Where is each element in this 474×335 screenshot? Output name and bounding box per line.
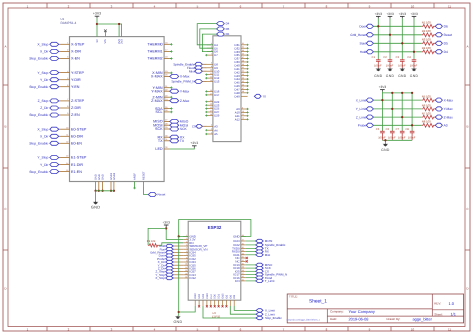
- svg-text:A: A: [4, 45, 6, 49]
- svg-text:10: 10: [210, 69, 212, 72]
- svg-text:X_Dir: X_Dir: [40, 50, 49, 54]
- pin IO35 U3: [183, 255, 188, 257]
- pin Y-STEP U1: [64, 72, 70, 74]
- svg-text:CLK: CLK: [210, 294, 213, 299]
- svg-text:10: 10: [411, 4, 415, 8]
- pin D6 U2: [207, 51, 213, 53]
- svg-text:Z-Max: Z-Max: [180, 99, 190, 103]
- svg-text:29: 29: [165, 126, 167, 129]
- pin SD3 U3 bottom: [202, 300, 204, 306]
- svg-text:C5: C5: [376, 128, 380, 131]
- pin IO27 U3: [183, 271, 188, 273]
- svg-text:25: 25: [210, 106, 212, 109]
- pin D7 U2: [207, 54, 213, 56]
- svg-text:C7: C7: [396, 128, 400, 131]
- svg-text:D29: D29: [214, 114, 220, 118]
- pin CMD U3 bottom: [206, 300, 208, 306]
- svg-text:+3V3: +3V3: [379, 85, 387, 89]
- svg-text:Y_Dir: Y_Dir: [40, 78, 49, 82]
- pin D47 U2: [241, 88, 247, 90]
- svg-text:31: 31: [165, 138, 167, 141]
- no-connect bottom pin: [206, 305, 208, 307]
- pin SDA U1: [164, 108, 170, 110]
- capacitor C1: [377, 58, 379, 61]
- svg-text:Step_Enable: Step_Enable: [29, 113, 48, 117]
- net label MISO: [170, 119, 179, 123]
- ground U3: [177, 315, 179, 318]
- svg-text:5: 5: [186, 247, 187, 250]
- svg-text:4: 4: [211, 128, 212, 131]
- net label X_Limit bottom: [256, 309, 263, 312]
- svg-text:+3V3: +3V3: [190, 141, 198, 145]
- svg-text:5: 5: [211, 131, 212, 134]
- no-connect NC: [246, 257, 248, 259]
- net label Y-Max: [435, 107, 442, 111]
- svg-text:X-DIR: X-DIR: [71, 50, 81, 54]
- svg-text:X_Dir: X_Dir: [40, 135, 49, 139]
- svg-text:9: 9: [186, 260, 187, 263]
- pin IO21 U3 right: [241, 254, 246, 256]
- junction GND U3: [178, 235, 180, 237]
- pin D37 U2: [241, 58, 247, 60]
- wire +3V3 to U1 5V pin: [96, 18, 98, 36]
- ground C1: [377, 67, 379, 70]
- capacitor C7: [401, 130, 403, 133]
- resistor R7 100: [422, 115, 435, 119]
- svg-text:R3 100: R3 100: [422, 38, 431, 42]
- svg-text:D13: D13: [214, 80, 220, 84]
- wire row7: [374, 116, 422, 118]
- svg-text:100nF: 100nF: [386, 64, 394, 67]
- net label Spindle_Enable: [195, 62, 203, 66]
- pin E0-EN U1: [64, 142, 70, 144]
- net label RX: [170, 135, 179, 139]
- svg-text:X_Step: X_Step: [37, 43, 48, 47]
- wire row8: [374, 124, 422, 126]
- net label Step_Enable: [59, 171, 64, 173]
- pin MOSI U1: [164, 124, 170, 126]
- pin IO14 U3: [183, 274, 188, 276]
- stub D29: [205, 114, 207, 116]
- net label Z-Max: [170, 99, 179, 103]
- svg-text:C8: C8: [405, 128, 409, 131]
- net label SCK U3: [246, 267, 256, 269]
- net label Step_Enable: [59, 57, 64, 59]
- svg-text:32: 32: [242, 256, 244, 259]
- svg-text:Y-Max: Y-Max: [180, 89, 190, 93]
- pin D16 U2: [207, 90, 213, 92]
- pin SENSOR_VN U3: [183, 248, 188, 250]
- wire to X_Limit: [234, 306, 256, 310]
- svg-text:C2: C2: [383, 56, 387, 59]
- net label D5 top: [217, 27, 225, 31]
- svg-text:GND: GND: [98, 174, 101, 180]
- net label X_Dir: [59, 135, 64, 137]
- svg-text:11: 11: [210, 72, 212, 75]
- svg-text:A: A: [466, 45, 468, 49]
- svg-text:Z-STEP: Z-STEP: [71, 99, 85, 103]
- pin CLK U3 bottom: [210, 300, 212, 306]
- stub D22: [205, 101, 207, 103]
- svg-text:REV:: REV:: [434, 302, 441, 306]
- svg-text:47: 47: [242, 87, 244, 90]
- svg-text:15: 15: [66, 169, 68, 172]
- svg-text:19: 19: [165, 70, 167, 73]
- no-connect bottom pin: [222, 305, 224, 307]
- pin D32 U2: [241, 47, 247, 49]
- pin D41 U2: [241, 68, 247, 70]
- junction row2: [389, 34, 391, 36]
- svg-text:+3V3: +3V3: [93, 12, 101, 16]
- pin D23 U2: [207, 104, 213, 106]
- chip U3 ESP32 body: [188, 221, 241, 300]
- svg-text:5: 5: [67, 77, 68, 80]
- junction row5: [381, 99, 383, 101]
- svg-text:THERM1: THERM1: [147, 50, 162, 54]
- svg-text:2: 2: [67, 49, 68, 52]
- pin IO12 U3: [183, 277, 188, 279]
- svg-text:Y-MAX: Y-MAX: [151, 89, 163, 93]
- resistor R5 100: [422, 98, 435, 102]
- svg-text:Hold: Hold: [360, 50, 367, 54]
- svg-text:11: 11: [448, 4, 451, 8]
- wire row6: [374, 108, 422, 110]
- svg-text:Y-EN: Y-EN: [71, 85, 80, 89]
- svg-text:GND: GND: [233, 235, 240, 239]
- svg-text:E0-DIR: E0-DIR: [71, 135, 83, 139]
- wire row5: [374, 99, 422, 101]
- svg-text:IO15: IO15: [222, 293, 225, 299]
- net label Z_Dir: [59, 107, 64, 109]
- svg-text:Y_Limit: Y_Limit: [356, 107, 367, 111]
- svg-text:E0-EN: E0-EN: [71, 142, 82, 146]
- svg-text:9: 9: [67, 112, 68, 115]
- pin THERM2 U1: [164, 58, 170, 60]
- svg-text:GND: GND: [398, 74, 407, 78]
- svg-text:12: 12: [185, 269, 187, 272]
- pin A11 U2: [241, 115, 247, 117]
- title block: [287, 294, 463, 323]
- svg-text:Z_Step: Z_Step: [38, 99, 49, 103]
- pin D27 U2: [207, 111, 213, 113]
- pin SCL U1: [164, 111, 170, 113]
- svg-text:Z_Dir: Z_Dir: [40, 106, 49, 110]
- wire row2: [374, 34, 422, 36]
- svg-text:Grbl_Reset: Grbl_Reset: [350, 33, 366, 37]
- svg-text:C4: C4: [407, 56, 411, 59]
- net label Y_Step U3: [173, 274, 183, 276]
- svg-text:B: B: [4, 125, 6, 129]
- svg-text:R7 100: R7 100: [422, 112, 431, 116]
- junction: [96, 23, 98, 25]
- pin A3 U2: [207, 125, 213, 127]
- svg-text:4: 4: [67, 70, 68, 73]
- svg-text:C3: C3: [396, 56, 400, 59]
- svg-text:14: 14: [185, 276, 187, 279]
- no-connect bottom pin: [214, 305, 216, 307]
- stub D25: [205, 108, 207, 110]
- net label X-Max: [435, 98, 442, 102]
- svg-text:25: 25: [165, 106, 167, 109]
- svg-text:23: 23: [165, 94, 167, 97]
- net label Spindle_PWM_N U3: [246, 274, 256, 276]
- net label Y_Dir U3: [173, 264, 183, 266]
- pin D35 U2: [241, 54, 247, 56]
- svg-text:D17: D17: [214, 93, 220, 97]
- net label Step_Enable: [59, 114, 64, 116]
- pin Y-EN U1: [64, 86, 70, 88]
- net label MOSI U3: [246, 240, 256, 242]
- svg-text:Z-MAX: Z-MAX: [151, 99, 163, 103]
- pin D12 U2: [207, 77, 213, 79]
- net label TX U3: [246, 247, 256, 249]
- svg-text:45: 45: [242, 80, 244, 83]
- pin IO32 U3: [183, 258, 188, 260]
- svg-text:IO12: IO12: [189, 276, 196, 280]
- net label Y_Dir: [59, 164, 64, 166]
- wire branch to 3V3 pins: [97, 24, 122, 37]
- net label Reset: [435, 33, 442, 37]
- svg-text:B: B: [466, 125, 468, 129]
- pin Y-MIN U1: [164, 87, 170, 89]
- svg-text:Y_Dir: Y_Dir: [40, 163, 49, 167]
- svg-text:Z-Max: Z-Max: [444, 115, 454, 119]
- pin D46 U2: [241, 85, 247, 87]
- svg-text:100nF: 100nF: [378, 137, 386, 140]
- svg-text:32: 32: [242, 46, 244, 49]
- pin E1-STEP U1: [64, 157, 70, 159]
- svg-text:A5: A5: [214, 132, 218, 136]
- pin D9 U2: [207, 67, 213, 69]
- net label X-Max: [170, 74, 179, 78]
- svg-text:16: 16: [210, 89, 212, 92]
- wire R9 to EN: [159, 243, 183, 246]
- svg-text:100nF: 100nF: [410, 64, 418, 67]
- pin X-EN U1: [64, 57, 70, 59]
- svg-text:Company:: Company:: [330, 310, 344, 314]
- stub D23: [205, 104, 207, 106]
- svg-text:LED: LED: [155, 147, 163, 151]
- resistor R1 100: [422, 24, 435, 28]
- stub A4: [205, 129, 207, 131]
- svg-text:CS: CS: [192, 124, 196, 128]
- pin D42 U2: [241, 71, 247, 73]
- pin D4 U2: [207, 44, 213, 46]
- net label RX U3: [246, 251, 256, 253]
- svg-text:Sheet:: Sheet:: [434, 312, 443, 316]
- svg-text:9: 9: [242, 106, 243, 109]
- pin A12 U2: [241, 118, 247, 120]
- pin IO16 U3 right: [241, 277, 246, 279]
- pin Z-STEP U1: [64, 100, 70, 102]
- stub D11: [205, 74, 207, 76]
- svg-text:A3: A3: [444, 124, 448, 128]
- svg-text:44: 44: [242, 77, 244, 80]
- chip U1 body: [70, 37, 165, 182]
- pin A5 U2: [207, 133, 213, 135]
- pin IO5 U3 right: [241, 270, 246, 272]
- net label Step_Enable: [59, 86, 64, 88]
- pin D29 U2: [207, 115, 213, 117]
- svg-text:+3V3: +3V3: [386, 12, 394, 16]
- net label X_Step: [59, 128, 64, 130]
- pin D45 U2: [241, 82, 247, 84]
- svg-text:R1 100: R1 100: [422, 21, 431, 25]
- pin RESET U1 bottom: [143, 182, 145, 188]
- stub A5: [205, 133, 207, 135]
- pin Z-MAX U1: [164, 100, 170, 102]
- junction row3: [401, 42, 403, 44]
- svg-text:D7: D7: [214, 53, 218, 57]
- svg-text:SCL: SCL: [155, 110, 162, 114]
- svg-text:27: 27: [165, 119, 167, 122]
- capacitor C3: [401, 58, 403, 61]
- wire stub THERM2: [170, 58, 172, 60]
- pin IO4 U3 right: [241, 280, 246, 282]
- svg-text:17: 17: [165, 49, 167, 52]
- wire stub THERM0: [170, 43, 172, 45]
- svg-text:22: 22: [165, 88, 167, 91]
- junction rail: [411, 92, 413, 94]
- pin GND U1 bottom: [95, 182, 97, 191]
- svg-text:E0-STEP: E0-STEP: [71, 127, 87, 131]
- pin GND U3: [183, 235, 188, 237]
- svg-text:+3V3: +3V3: [375, 12, 383, 16]
- pin TX U1: [164, 140, 170, 142]
- svg-text:8: 8: [186, 256, 187, 259]
- svg-text:GND: GND: [91, 205, 101, 210]
- wire col5: [381, 93, 383, 131]
- svg-text:30: 30: [242, 262, 244, 265]
- svg-text:Reset: Reset: [444, 33, 453, 37]
- pin GND U1 bottom: [102, 182, 104, 191]
- svg-text:8: 8: [211, 62, 212, 65]
- svg-text:48: 48: [242, 90, 244, 93]
- svg-text:D6: D6: [444, 25, 448, 29]
- pin X-DIR U1: [64, 50, 70, 52]
- net label A3: [435, 123, 442, 127]
- svg-text:X-STEP: X-STEP: [71, 43, 85, 47]
- svg-text:25: 25: [242, 278, 244, 281]
- svg-text:E1-DIR: E1-DIR: [71, 163, 83, 167]
- net label Spindle_PWM_N: [195, 80, 203, 84]
- wire +3V3 col4: [413, 18, 415, 59]
- pin THERM0 U1: [164, 43, 170, 45]
- net label Run U3: [173, 248, 183, 250]
- svg-text:5V: 5V: [96, 39, 99, 42]
- wire to Step_Enable: [203, 306, 256, 318]
- svg-text:41: 41: [242, 66, 244, 69]
- ground C4: [413, 67, 415, 70]
- net label Z_Step U3: [173, 271, 183, 273]
- wire row1: [374, 25, 422, 27]
- svg-text:6: 6: [67, 84, 68, 87]
- svg-text:9: 9: [211, 65, 212, 68]
- svg-text:GND: GND: [173, 320, 182, 324]
- wire gnd bus: [96, 190, 114, 192]
- pin D40 U2: [241, 64, 247, 66]
- wire stub Y-MIN: [170, 87, 172, 89]
- svg-text:Y-DIR: Y-DIR: [71, 78, 81, 82]
- svg-text:Y-STEP: Y-STEP: [71, 71, 85, 75]
- net label Step_Enable: [59, 142, 64, 144]
- net label D5: [435, 41, 442, 45]
- junction row1: [377, 25, 379, 27]
- svg-text:12: 12: [66, 141, 68, 144]
- net label Z_Limit bottom: [256, 313, 263, 316]
- svg-text:GND: GND: [386, 74, 395, 78]
- svg-text:11: 11: [185, 266, 187, 269]
- svg-text:27: 27: [210, 109, 212, 112]
- pin D5 U2: [207, 47, 213, 49]
- svg-text:AREF: AREF: [134, 173, 137, 180]
- net label X_Step: [59, 43, 64, 45]
- svg-text:Your Company: Your Company: [349, 309, 375, 314]
- svg-text:100nF: 100nF: [388, 137, 396, 140]
- svg-text:24: 24: [165, 98, 167, 101]
- svg-text:Y-Max: Y-Max: [444, 107, 453, 111]
- wire stub THERM1: [170, 50, 172, 52]
- pin GND U1 bottom: [98, 182, 100, 191]
- svg-text:22: 22: [210, 99, 212, 102]
- svg-text:Step_Enable: Step_Enable: [265, 316, 282, 320]
- svg-text:CMD: CMD: [206, 293, 209, 299]
- pin D17 U2: [207, 94, 213, 96]
- wire D4 loop: [197, 24, 216, 45]
- net label Spindle_Enable U3: [246, 244, 256, 246]
- svg-text:12: 12: [242, 117, 244, 120]
- svg-text:C6: C6: [386, 128, 390, 131]
- pin RXD0 U3 right: [241, 251, 246, 253]
- svg-text:X-EN: X-EN: [71, 57, 80, 61]
- svg-text:Spindle_PWM_N: Spindle_PWM_N: [171, 80, 194, 84]
- svg-text:16: 16: [165, 42, 167, 45]
- net label Mist U3: [246, 254, 256, 256]
- svg-text:8: 8: [67, 105, 68, 108]
- junction row4: [413, 51, 415, 53]
- pin IO26 U3: [183, 267, 188, 269]
- svg-text:100nF: 100nF: [398, 64, 406, 67]
- wire col7: [401, 93, 403, 131]
- pin Y-DIR U1: [64, 79, 70, 81]
- net label Z_Dir U3: [173, 267, 183, 269]
- svg-text:31: 31: [242, 42, 244, 45]
- svg-text:3: 3: [211, 124, 212, 127]
- svg-text:GND: GND: [102, 174, 105, 180]
- pin X-MAX U1: [164, 75, 170, 77]
- net label Probe U3: [173, 258, 183, 260]
- pin Z-DIR U1: [64, 107, 70, 109]
- pin IO23 U3 right: [241, 240, 246, 242]
- svg-text:R6 100: R6 100: [422, 103, 431, 107]
- svg-text:12: 12: [210, 76, 212, 79]
- pin SD0 U3 bottom: [214, 300, 216, 306]
- svg-text:10: 10: [185, 263, 187, 266]
- svg-text:26: 26: [165, 109, 167, 112]
- pin D13 U2: [207, 81, 213, 83]
- svg-text:SD2: SD2: [198, 293, 201, 298]
- svg-text:THERM0: THERM0: [147, 43, 162, 47]
- wire branch 2: [118, 24, 120, 37]
- svg-text:29: 29: [242, 266, 244, 269]
- pin GND1 U1 bottom: [110, 182, 112, 191]
- svg-text:2019-06-08: 2019-06-08: [349, 317, 369, 322]
- svg-text:2: 2: [186, 237, 187, 240]
- no-connect bottom pin: [198, 305, 200, 307]
- svg-text:3V3: 3V3: [121, 39, 124, 44]
- svg-text:32: 32: [165, 146, 167, 149]
- svg-text:23: 23: [210, 103, 212, 106]
